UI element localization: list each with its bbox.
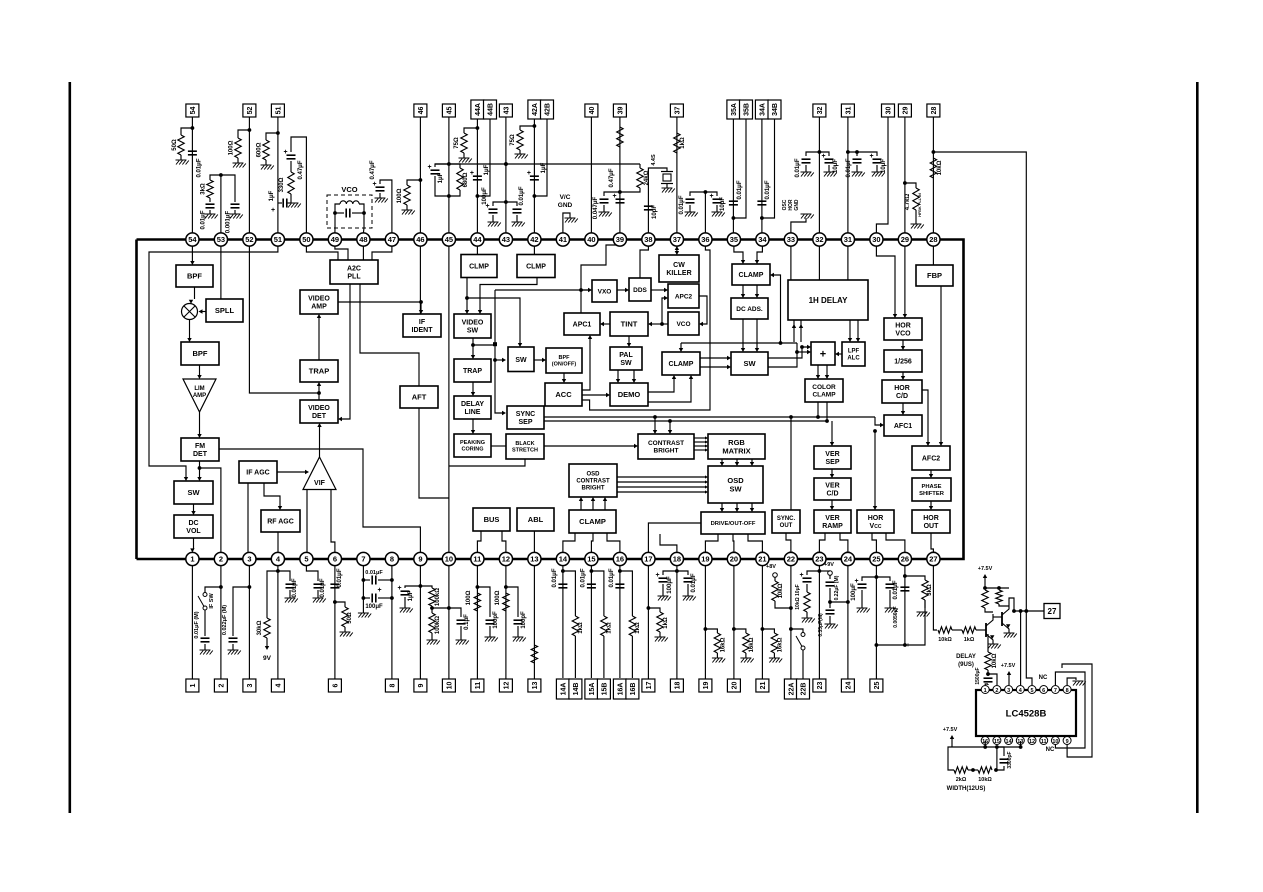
- svg-text:5: 5: [1030, 688, 1033, 694]
- ref box 24: [841, 679, 854, 692]
- pin 9: [414, 552, 427, 565]
- wire sync rail 2: [544, 420, 827, 422]
- pin 41: [556, 233, 569, 246]
- svg-text:+: +: [271, 207, 275, 214]
- svg-text:32: 32: [815, 235, 823, 244]
- wire pin10 bottom: [448, 566, 450, 679]
- svg-text:ABL: ABL: [528, 515, 544, 524]
- pin 8: [385, 552, 398, 565]
- svg-text:1kΩ: 1kΩ: [606, 622, 612, 634]
- pin 29: [898, 233, 911, 246]
- svg-text:BRIGHT: BRIGHT: [582, 486, 605, 492]
- block SW middle: [508, 347, 534, 372]
- svg-text:21: 21: [760, 682, 767, 690]
- resistor 16k pin20: [734, 629, 746, 633]
- wire pin37 top column: [676, 117, 678, 233]
- ref box 1: [186, 679, 199, 692]
- wire pin46 top column: [419, 117, 421, 233]
- wire rail to SYNC OUT: [790, 417, 792, 510]
- svg-text:1500μF: 1500μF: [975, 667, 981, 684]
- pin 35: [727, 233, 740, 246]
- wire VCO to TINT: [652, 323, 668, 325]
- block AFT: [400, 386, 438, 408]
- svg-text:0.01μF: 0.01μF: [552, 568, 558, 587]
- block AFC2: [912, 446, 950, 470]
- svg-text:+8V: +8V: [766, 564, 776, 570]
- svg-text:29: 29: [901, 235, 909, 244]
- page border bar right: [1196, 82, 1199, 813]
- wire ACC to DEMO: [582, 394, 606, 396]
- ground Q2 emitter: [1004, 633, 1017, 638]
- wire pin50 loop: [291, 137, 306, 233]
- capacitor 0.01uF pin32: [806, 152, 819, 156]
- svg-text:0.01μF: 0.01μF: [197, 158, 203, 177]
- wire pin23 bottom: [818, 566, 820, 679]
- svg-text:DELAY: DELAY: [956, 654, 976, 660]
- wire pin11 bottom: [476, 566, 478, 679]
- wire pin16 bottom: [619, 566, 621, 678]
- pin 26: [898, 552, 911, 565]
- svg-text:22B: 22B: [800, 683, 807, 696]
- svg-text:CLAMP: CLAMP: [812, 392, 836, 399]
- ground pin51 cap: [288, 202, 291, 204]
- ref box 21: [756, 679, 769, 692]
- block SYNC OUT: [772, 510, 800, 533]
- wire pin30 top column: [876, 117, 888, 233]
- resistor 100 ohm pin52: [238, 130, 249, 138]
- capacitor 0.01uF pin25: [876, 577, 890, 581]
- svg-text:SYNC.: SYNC.: [777, 516, 796, 522]
- wire 1H DELAY up arrows: [793, 320, 795, 342]
- svg-text:(ON/OFF): (ON/OFF): [552, 362, 577, 368]
- svg-text:24kΩ: 24kΩ: [644, 170, 650, 185]
- wire pin28 to FBP: [932, 240, 934, 266]
- capacitor 0.01uF pin4 right: [278, 571, 290, 581]
- svg-text:3: 3: [1007, 688, 1010, 694]
- block DC ADS: [731, 298, 768, 319]
- svg-text:10pF: 10pF: [652, 205, 658, 219]
- svg-text:+: +: [800, 572, 804, 579]
- block BLACK STRETCH: [506, 434, 544, 459]
- wire BPF onoff to ACC: [563, 373, 565, 379]
- pin 50: [300, 233, 313, 246]
- svg-text:52: 52: [247, 107, 254, 115]
- svg-text:3: 3: [247, 555, 251, 564]
- svg-text:1μF: 1μF: [438, 172, 444, 183]
- resistor 75 ohm pin42: [520, 126, 534, 130]
- wire CLMP2 to VIDEO SW: [480, 278, 537, 311]
- svg-text:SW: SW: [467, 328, 479, 335]
- block OSD CONTRAST BRIGHT: [569, 464, 617, 497]
- wire pin42 to CLMP2: [533, 240, 535, 255]
- svg-text:CORING: CORING: [462, 447, 484, 453]
- svg-text:+: +: [378, 587, 382, 594]
- svg-text:AFC2: AFC2: [922, 456, 940, 463]
- svg-text:0.01μF: 0.01μF: [691, 573, 697, 592]
- svg-text:6: 6: [1042, 688, 1045, 694]
- wire COLOR CLAMP down to rails: [817, 402, 819, 417]
- svg-text:DEMO: DEMO: [618, 390, 641, 399]
- svg-text:2kΩ: 2kΩ: [956, 777, 967, 783]
- capacitor 0.01uF pin16 series: [615, 583, 624, 585]
- wire BLACK STRETCH to CONTRAST: [544, 445, 634, 447]
- svg-text:44: 44: [473, 235, 482, 244]
- resistor 10k delay: [987, 634, 989, 652]
- pin 6: [328, 552, 341, 565]
- svg-text:AFC1: AFC1: [894, 423, 912, 430]
- ref box 34A: [755, 100, 768, 119]
- wire pin40 top column: [590, 117, 592, 233]
- block VCO center: [668, 312, 699, 335]
- capacitor 0.47uF pin50: [287, 154, 296, 156]
- svg-text:CONTRAST: CONTRAST: [648, 440, 684, 447]
- svg-text:CLAMP: CLAMP: [579, 517, 606, 526]
- capacitor 0.0056uF pin26 series: [900, 586, 909, 588]
- wire pin30 jog to HOR VCO: [876, 240, 895, 315]
- svg-text:100μF: 100μF: [365, 604, 383, 610]
- wire pin12 bottom: [505, 566, 507, 679]
- svg-text:16kΩ: 16kΩ: [720, 637, 726, 652]
- wire RF AGC to pin4: [277, 532, 279, 559]
- block CLMP 2: [517, 255, 555, 278]
- block CLAMP center: [662, 352, 700, 375]
- svg-text:SEP: SEP: [518, 419, 532, 426]
- wire RGB MATRIX to OSD SW: [721, 459, 723, 462]
- svg-text:SW: SW: [729, 484, 742, 493]
- svg-text:DELAY: DELAY: [461, 401, 484, 408]
- svg-text:12: 12: [1029, 739, 1035, 745]
- pin 53: [214, 233, 227, 246]
- resistor 100 ohm pin46: [407, 180, 420, 185]
- wire sync rail 1: [544, 416, 875, 418]
- block 1/256: [884, 350, 922, 372]
- wire 27 line down to LC pin4: [1020, 611, 1022, 685]
- resistor 75 ohm pin44: [464, 128, 477, 133]
- wire pin25-26 rail: [876, 644, 905, 646]
- wire pin54 to BPF: [191, 240, 193, 262]
- svg-text:22A: 22A: [788, 683, 795, 696]
- pin 19: [699, 552, 712, 565]
- svg-text:VCO: VCO: [895, 331, 911, 338]
- block TRAP left-middle: [454, 359, 491, 382]
- resistor 600 ohm pin51: [266, 133, 278, 140]
- svg-text:+: +: [710, 193, 714, 200]
- block FBP: [916, 265, 953, 286]
- wire pin6 bottom: [334, 566, 336, 679]
- ref box 35A: [727, 100, 740, 119]
- resistor 3k pin26: [905, 576, 925, 580]
- svg-text:36: 36: [701, 235, 709, 244]
- pin 12: [499, 552, 512, 565]
- wire junction to pin2: [200, 468, 221, 559]
- pin 17: [642, 552, 655, 565]
- wire VIF left leg to pin5: [306, 490, 308, 560]
- pin 18: [670, 552, 683, 565]
- svg-text:39: 39: [617, 107, 624, 115]
- svg-text:51: 51: [274, 235, 282, 244]
- svg-text:BRIGHT: BRIGHT: [654, 448, 679, 455]
- ref box 16A: [613, 679, 626, 699]
- svg-text:0.01μF: 0.01μF: [320, 578, 326, 597]
- svg-text:18: 18: [673, 555, 681, 564]
- ref box 14B: [569, 679, 582, 699]
- svg-text:1kΩ: 1kΩ: [578, 622, 584, 634]
- svg-text:0.47μF: 0.47μF: [609, 168, 615, 187]
- wire HOR C/D to AFC1: [902, 403, 904, 411]
- svg-text:30kΩ: 30kΩ: [257, 620, 263, 635]
- capacitor 0.33uF pin23: [829, 602, 831, 608]
- pin 46: [414, 233, 427, 246]
- wire CLAMP bottom to OSD CB: [580, 501, 582, 510]
- svg-text:1μF: 1μF: [484, 164, 490, 175]
- block PEAKING CORING: [454, 434, 491, 457]
- svg-text:SW: SW: [743, 359, 756, 368]
- wire TINT to PAL SW: [628, 336, 630, 343]
- ground pin26: [924, 600, 926, 608]
- svg-text:52: 52: [245, 235, 253, 244]
- pin 16: [613, 552, 626, 565]
- wire delay junction to LC pin2: [988, 674, 997, 685]
- svg-text:24: 24: [845, 682, 852, 690]
- svg-text:RAMP: RAMP: [822, 523, 843, 530]
- svg-text:WIDTH(12US): WIDTH(12US): [947, 786, 986, 792]
- svg-text:VER: VER: [825, 451, 839, 458]
- block VXO: [592, 280, 617, 302]
- svg-text:NC: NC: [1039, 675, 1048, 681]
- ref box 43: [499, 104, 512, 117]
- VCO dashed box: [327, 195, 372, 228]
- svg-text:9V: 9V: [263, 655, 272, 662]
- pin 2: [214, 552, 227, 565]
- svg-text:50Ω: 50Ω: [347, 612, 353, 624]
- svg-text:34B: 34B: [772, 103, 779, 116]
- ref box 14A: [556, 679, 569, 699]
- svg-text:1kΩ: 1kΩ: [635, 622, 641, 634]
- svg-text:TRAP: TRAP: [309, 367, 329, 376]
- wire pin24 bottom: [847, 566, 849, 679]
- wire rail taps to CONTRAST BRIGHT: [654, 417, 656, 430]
- svg-text:+7.5V: +7.5V: [943, 727, 958, 733]
- svg-text:SW: SW: [515, 357, 527, 364]
- ref box 28: [927, 104, 940, 117]
- amplifier VIF: [303, 457, 336, 490]
- svg-text:0.01μF: 0.01μF: [609, 568, 615, 587]
- wire VER C/D to VER RAMP: [831, 500, 833, 506]
- block DEMO: [610, 383, 648, 406]
- ref box 35B: [740, 100, 753, 119]
- wire OSD CB to OSD SW lines: [617, 476, 705, 478]
- pin 42: [528, 233, 541, 246]
- wire pin51 top column: [277, 117, 279, 233]
- wire PEAKING to BLACK STRETCH: [491, 445, 506, 447]
- ref box 44A: [471, 100, 484, 119]
- capacitor 0.01uF pin35: [729, 200, 738, 202]
- wire PHASE SHIFTER to HOR OUT: [930, 501, 932, 506]
- svg-text:IDENT: IDENT: [412, 327, 434, 334]
- capacitor 10uF pin32: [819, 152, 829, 156]
- svg-text:0.47μF: 0.47μF: [370, 160, 376, 179]
- svg-text:21: 21: [758, 555, 766, 564]
- ref box 20: [727, 679, 740, 692]
- capacitor 0.01uF pin54: [188, 150, 197, 152]
- svg-text:4.4S: 4.4S: [651, 154, 657, 166]
- svg-text:+: +: [613, 193, 617, 200]
- block CLAMP bottom: [569, 510, 616, 533]
- block SYNC SEP: [507, 406, 544, 429]
- wire FM DET to SW with junction: [199, 461, 201, 477]
- svg-text:VOL: VOL: [186, 528, 201, 535]
- wire VIDEO AMP to IF IDENT: [338, 302, 421, 310]
- svg-text:LIM: LIM: [194, 386, 204, 392]
- svg-text:0.022μF (M): 0.022μF (M): [222, 605, 228, 635]
- capacitor 1500uF delay: [987, 670, 989, 676]
- svg-text:100kΩ: 100kΩ: [435, 588, 441, 606]
- svg-text:BPF: BPF: [559, 355, 571, 361]
- pin 32: [813, 233, 826, 246]
- svg-text:42B: 42B: [544, 103, 551, 116]
- wire pin19 bottom: [704, 566, 706, 679]
- wire APC2 to VCO loop: [699, 296, 707, 324]
- svg-text:14: 14: [559, 555, 568, 564]
- svg-text:DC ADS.: DC ADS.: [736, 306, 763, 313]
- wire SW to DC VOL: [193, 504, 195, 511]
- resistor 100k pin9 lower: [431, 608, 433, 613]
- block APC1: [564, 313, 600, 335]
- capacitor 0.47uF pin39: [616, 198, 625, 200]
- wire pin22 bottom: [790, 566, 792, 679]
- svg-text:11: 11: [1041, 739, 1047, 745]
- svg-text:4.7kΩ: 4.7kΩ: [905, 194, 911, 211]
- capacitor 0.01uF pin36: [690, 192, 705, 196]
- wire IF AGC to RF AGC: [264, 483, 280, 506]
- resistor 4.7k pin29: [905, 183, 916, 188]
- wire junction to SW middle horiz: [473, 344, 495, 346]
- wire pin27 to transistor circuit: [933, 566, 937, 630]
- svg-text:34A: 34A: [759, 103, 766, 116]
- svg-text:A2C: A2C: [347, 266, 361, 273]
- block VER SEP: [814, 446, 851, 469]
- svg-text:MATRIX: MATRIX: [722, 446, 750, 455]
- block RF AGC: [261, 510, 300, 532]
- svg-text:CONTRAST: CONTRAST: [576, 479, 610, 485]
- svg-text:0.01μF: 0.01μF: [846, 158, 852, 177]
- resistor 10k width: [968, 769, 978, 771]
- svg-text:10kΩ: 10kΩ: [778, 583, 784, 598]
- svg-text:27: 27: [929, 555, 937, 564]
- resistor 10k pin22: [772, 581, 778, 601]
- svg-text:LC4528B: LC4528B: [1006, 709, 1047, 720]
- svg-text:1H DELAY: 1H DELAY: [809, 296, 848, 305]
- resistor 1k pin16: [620, 571, 633, 616]
- svg-text:75Ω: 75Ω: [510, 134, 516, 146]
- wire VXO feed vertical: [495, 290, 502, 413]
- wire pin45 top column: [448, 117, 450, 233]
- block SW right: [731, 352, 768, 375]
- wire VCO to pin49: [334, 213, 336, 233]
- pin 44: [471, 233, 484, 246]
- svg-text:FBP: FBP: [927, 271, 942, 280]
- wire SYNC OUT to pin22: [786, 533, 791, 552]
- svg-text:VCO: VCO: [341, 185, 357, 194]
- wire mixer to BPF lower: [189, 320, 191, 339]
- block A2C PLL: [330, 260, 378, 284]
- switch IF SW pin2: [205, 587, 221, 592]
- svg-text:31: 31: [844, 235, 852, 244]
- capacitor 0.001uF pin53: [221, 175, 235, 202]
- svg-text:6: 6: [333, 555, 337, 564]
- svg-text:IF SW: IF SW: [209, 593, 215, 609]
- capacitor 0.1uF pin10: [449, 608, 461, 617]
- wire pin31 top column: [847, 117, 849, 233]
- ground pin53 left: [205, 214, 218, 219]
- capacitor 100uF pin18: [663, 571, 677, 575]
- wire pin42B down: [534, 119, 547, 196]
- block LPF ALC: [842, 342, 865, 366]
- wire pin33 ground: [791, 218, 806, 233]
- svg-text:53: 53: [217, 235, 225, 244]
- svg-text:COLOR: COLOR: [812, 384, 836, 391]
- svg-text:2: 2: [219, 555, 223, 564]
- svg-text:+: +: [527, 170, 531, 177]
- wire to box 27: [1009, 598, 1044, 611]
- svg-text:CW: CW: [673, 262, 685, 269]
- svg-text:10: 10: [1052, 739, 1058, 745]
- ground pin52: [233, 163, 246, 168]
- svg-text:0.01μF: 0.01μF: [737, 180, 743, 199]
- svg-text:1kΩ: 1kΩ: [663, 617, 669, 629]
- wire SW mid to BPF onoff: [534, 359, 542, 361]
- block IF AGC: [239, 461, 277, 483]
- svg-text:31: 31: [845, 107, 852, 115]
- wire pin50 to A2C PLL: [306, 240, 338, 261]
- ref box 9: [414, 679, 427, 692]
- wire SPLL to mixer: [201, 311, 206, 313]
- svg-text:CLMP: CLMP: [469, 264, 489, 271]
- svg-text:42: 42: [530, 235, 538, 244]
- svg-text:0.01μF: 0.01μF: [893, 580, 899, 599]
- svg-text:AMP: AMP: [193, 393, 206, 399]
- block ABL: [517, 508, 554, 531]
- LC4528B top pins: [981, 686, 989, 694]
- pin 40: [585, 233, 598, 246]
- ref box 29: [898, 104, 911, 117]
- svg-text:VCC: VCC: [870, 523, 882, 530]
- wire pin5 bottom: [306, 566, 318, 581]
- svg-text:1μF: 1μF: [269, 190, 275, 201]
- ref box 39: [613, 104, 626, 117]
- ground Q1 emitter: [988, 644, 1001, 649]
- resistor 1k horizontal pin27: [952, 629, 962, 631]
- svg-text:SHIFTER: SHIFTER: [919, 491, 945, 497]
- svg-text:(9US): (9US): [958, 662, 974, 668]
- svg-text:HOR: HOR: [895, 323, 911, 330]
- wire A2C PLL to AFT: [360, 284, 419, 386]
- wire pin13 to ABL: [533, 531, 535, 559]
- resistor 10k pin28: [930, 158, 936, 178]
- svg-text:OSD: OSD: [586, 472, 600, 478]
- wire pin9 bottom: [419, 566, 421, 679]
- pin 33: [784, 233, 797, 246]
- wire pin41 ground: [563, 213, 570, 233]
- svg-text:BLACK: BLACK: [515, 441, 534, 447]
- svg-text:30: 30: [885, 107, 892, 115]
- svg-text:100μF: 100μF: [667, 576, 673, 594]
- svg-text:15: 15: [994, 739, 1000, 745]
- svg-text:HFBK PLL IN: HFBK PLL IN: [918, 193, 922, 217]
- pin 14: [556, 552, 569, 565]
- svg-text:10kΩ 10μF: 10kΩ 10μF: [795, 584, 801, 609]
- wire HOR VCO to 1/256: [902, 340, 904, 346]
